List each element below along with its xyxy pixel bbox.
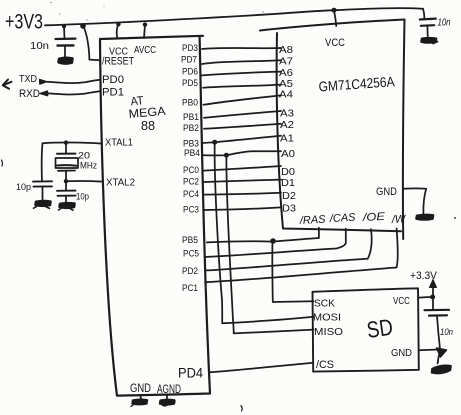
ground C1: [59, 58, 73, 64]
ground C3: [60, 203, 75, 208]
wire PD4 to /CS: [210, 363, 313, 373]
svg-text:MISO: MISO: [314, 326, 343, 338]
wire rail to /RESET: [83, 25, 100, 60]
wire AVCC stub U1: [144, 25, 145, 38]
svg-text:MHz: MHz: [80, 161, 97, 172]
SD card U3 body: [313, 288, 419, 371]
wire PC2-D1: [204, 180, 281, 182]
wire PC5 to /CAS: [206, 229, 346, 257]
wire U3 GND to ground: [419, 349, 440, 363]
svg-text:/CAS: /CAS: [329, 212, 357, 225]
stray mark bottom: [241, 406, 242, 412]
svg-text:PB1: PB1: [183, 112, 199, 123]
svg-text:PD4: PD4: [178, 365, 203, 381]
ground U1 GND: [140, 396, 143, 400]
svg-text:PD5: PD5: [182, 78, 198, 89]
ground C5: [422, 38, 437, 42]
capacitor C2 10p: [16, 181, 52, 200]
svg-text:VCC: VCC: [393, 295, 410, 307]
wire PB5 to /RAS: [207, 228, 319, 243]
capacitor C4 10n at SD: [425, 297, 454, 349]
node TXD off-page arrow: [3, 80, 12, 89]
ground C2: [36, 201, 51, 206]
svg-text:A3: A3: [280, 108, 294, 120]
svg-text:10n: 10n: [30, 41, 49, 52]
wire PD3-A8: [202, 48, 281, 49]
wire SCK vertical: [272, 242, 313, 302]
wire VCC stub U1: [117, 24, 119, 37]
wire PD2 to /OE: [207, 229, 372, 270]
svg-text:/RAS: /RAS: [299, 214, 327, 227]
svg-text:AVCC: AVCC: [134, 45, 156, 56]
wire U2 GND to ground: [403, 188, 426, 214]
svg-text:VCC: VCC: [325, 37, 345, 49]
svg-text:SD: SD: [365, 314, 394, 343]
svg-text:A2: A2: [280, 119, 294, 131]
svg-text:PC0: PC0: [183, 165, 199, 176]
svg-text:10n: 10n: [438, 18, 451, 29]
svg-text:GND: GND: [130, 383, 151, 395]
svg-text:D2: D2: [282, 190, 296, 202]
svg-text:PD3: PD3: [182, 43, 198, 54]
svg-text:PB0: PB0: [182, 98, 198, 109]
stray speck marks: [50, 2, 52, 4]
svg-text:D1: D1: [281, 177, 295, 189]
svg-text:/CS: /CS: [316, 359, 334, 371]
svg-text:PD0: PD0: [102, 74, 124, 86]
svg-text:D3: D3: [282, 203, 296, 215]
wire +3V3 power rail: [45, 8, 423, 25]
wire XTAL1: [43, 142, 103, 143]
wire U3 VCC to +3.3V arrow: [419, 296, 434, 299]
svg-text:10p: 10p: [16, 182, 31, 193]
junction rail-AVCC: [143, 22, 147, 26]
svg-text:PC4: PC4: [183, 189, 199, 200]
wire MISO vertical from PB4 junction: [226, 155, 313, 333]
svg-text:PD6: PD6: [182, 67, 198, 78]
svg-text:PD7: PD7: [181, 55, 197, 66]
svg-text:/OE: /OE: [361, 211, 386, 224]
junction rail-VCC: [116, 22, 120, 26]
wire PB1-A3: [204, 111, 281, 118]
svg-text:PC3: PC3: [183, 205, 199, 216]
wire PD6-A6: [202, 72, 281, 76]
junction rail-RESET: [80, 23, 86, 29]
U1 name AT MEGA 88: [128, 93, 166, 133]
svg-text:XTAL2: XTAL2: [106, 178, 135, 189]
IC U1 ATmega88 body: [100, 36, 210, 396]
svg-text:GND: GND: [391, 347, 412, 359]
capacitor C3 10p: [57, 181, 89, 203]
svg-text:A1: A1: [280, 133, 294, 145]
svg-text:PD2: PD2: [182, 266, 198, 277]
svg-text:AGND: AGND: [157, 384, 181, 396]
svg-text:88: 88: [141, 119, 155, 133]
svg-text:10p: 10p: [76, 192, 89, 202]
svg-text:TXD: TXD: [19, 73, 37, 85]
svg-text:A0: A0: [281, 148, 295, 160]
wire PB4-A0 with junction: [204, 151, 282, 155]
wire TXD to PD0 with arrowhead: [40, 79, 47, 84]
wire PD7-A7: [202, 60, 281, 64]
svg-text:PC2: PC2: [183, 177, 199, 188]
junction blob GND-C4: [437, 348, 447, 357]
wire RXD from PD1 with arrowhead: [40, 91, 48, 96]
svg-text:PB4: PB4: [184, 148, 200, 159]
junction PB5-SCK: [270, 238, 276, 244]
capacitor C5 10n top right: [420, 9, 451, 36]
svg-text:10n: 10n: [440, 327, 453, 338]
svg-text:GM71C4256A: GM71C4256A: [318, 73, 395, 94]
svg-text:/W: /W: [391, 213, 408, 226]
capacitor C1 10n: [30, 26, 76, 57]
junction rail-U2-VCC: [332, 8, 337, 13]
svg-text:/RESET: /RESET: [102, 56, 134, 68]
pin labels U2 left side: [279, 44, 296, 215]
svg-text:PC1: PC1: [182, 283, 198, 294]
pin labels U1 right side: [181, 43, 200, 294]
svg-text:PB2: PB2: [183, 123, 199, 134]
svg-text:+3V3: +3V3: [5, 11, 43, 34]
wire MOSI vertical from PB3 junction: [215, 142, 314, 323]
junction XTAL2-C3: [64, 179, 68, 183]
wire left leg down to C2: [41, 143, 44, 181]
pin labels U2 bottom: [299, 211, 408, 227]
junction XTAL1-crystal: [64, 140, 68, 144]
svg-text:SCK: SCK: [314, 298, 335, 310]
wire PC4-D2: [204, 193, 281, 195]
ground U1 AGND: [166, 396, 168, 400]
wire PB3-A1 with junction: [203, 136, 281, 143]
svg-text:A4: A4: [279, 89, 293, 101]
stray mark left edge: [1, 160, 4, 166]
svg-text:A7: A7: [279, 56, 293, 68]
wire PB0-A4: [204, 95, 282, 104]
wire PD5-A5: [203, 85, 281, 88]
svg-text:PC5: PC5: [183, 249, 199, 260]
wire XTAL2: [66, 180, 103, 183]
wire PC3-D3: [204, 207, 281, 210]
junction rail-C1: [62, 24, 66, 28]
wire PC0-D0: [204, 166, 281, 171]
ground U3: [432, 366, 451, 373]
svg-text:RXD: RXD: [19, 88, 40, 100]
svg-text:XTAL1: XTAL1: [105, 138, 133, 149]
crystal Y1 20MHz: [56, 143, 98, 182]
svg-text:MOSI: MOSI: [313, 312, 341, 324]
svg-text:A8: A8: [279, 44, 293, 56]
wire PB2-A2: [204, 124, 281, 129]
IC U2 GM71C4256A DRAM body: [260, 20, 405, 240]
wire U2 VCC stub: [334, 10, 336, 26]
ground U2: [417, 215, 434, 220]
svg-text:GND: GND: [376, 186, 397, 198]
wire PC1 to /W: [205, 229, 398, 283]
svg-text:PD1: PD1: [102, 87, 124, 99]
svg-text:PB5: PB5: [182, 235, 198, 246]
